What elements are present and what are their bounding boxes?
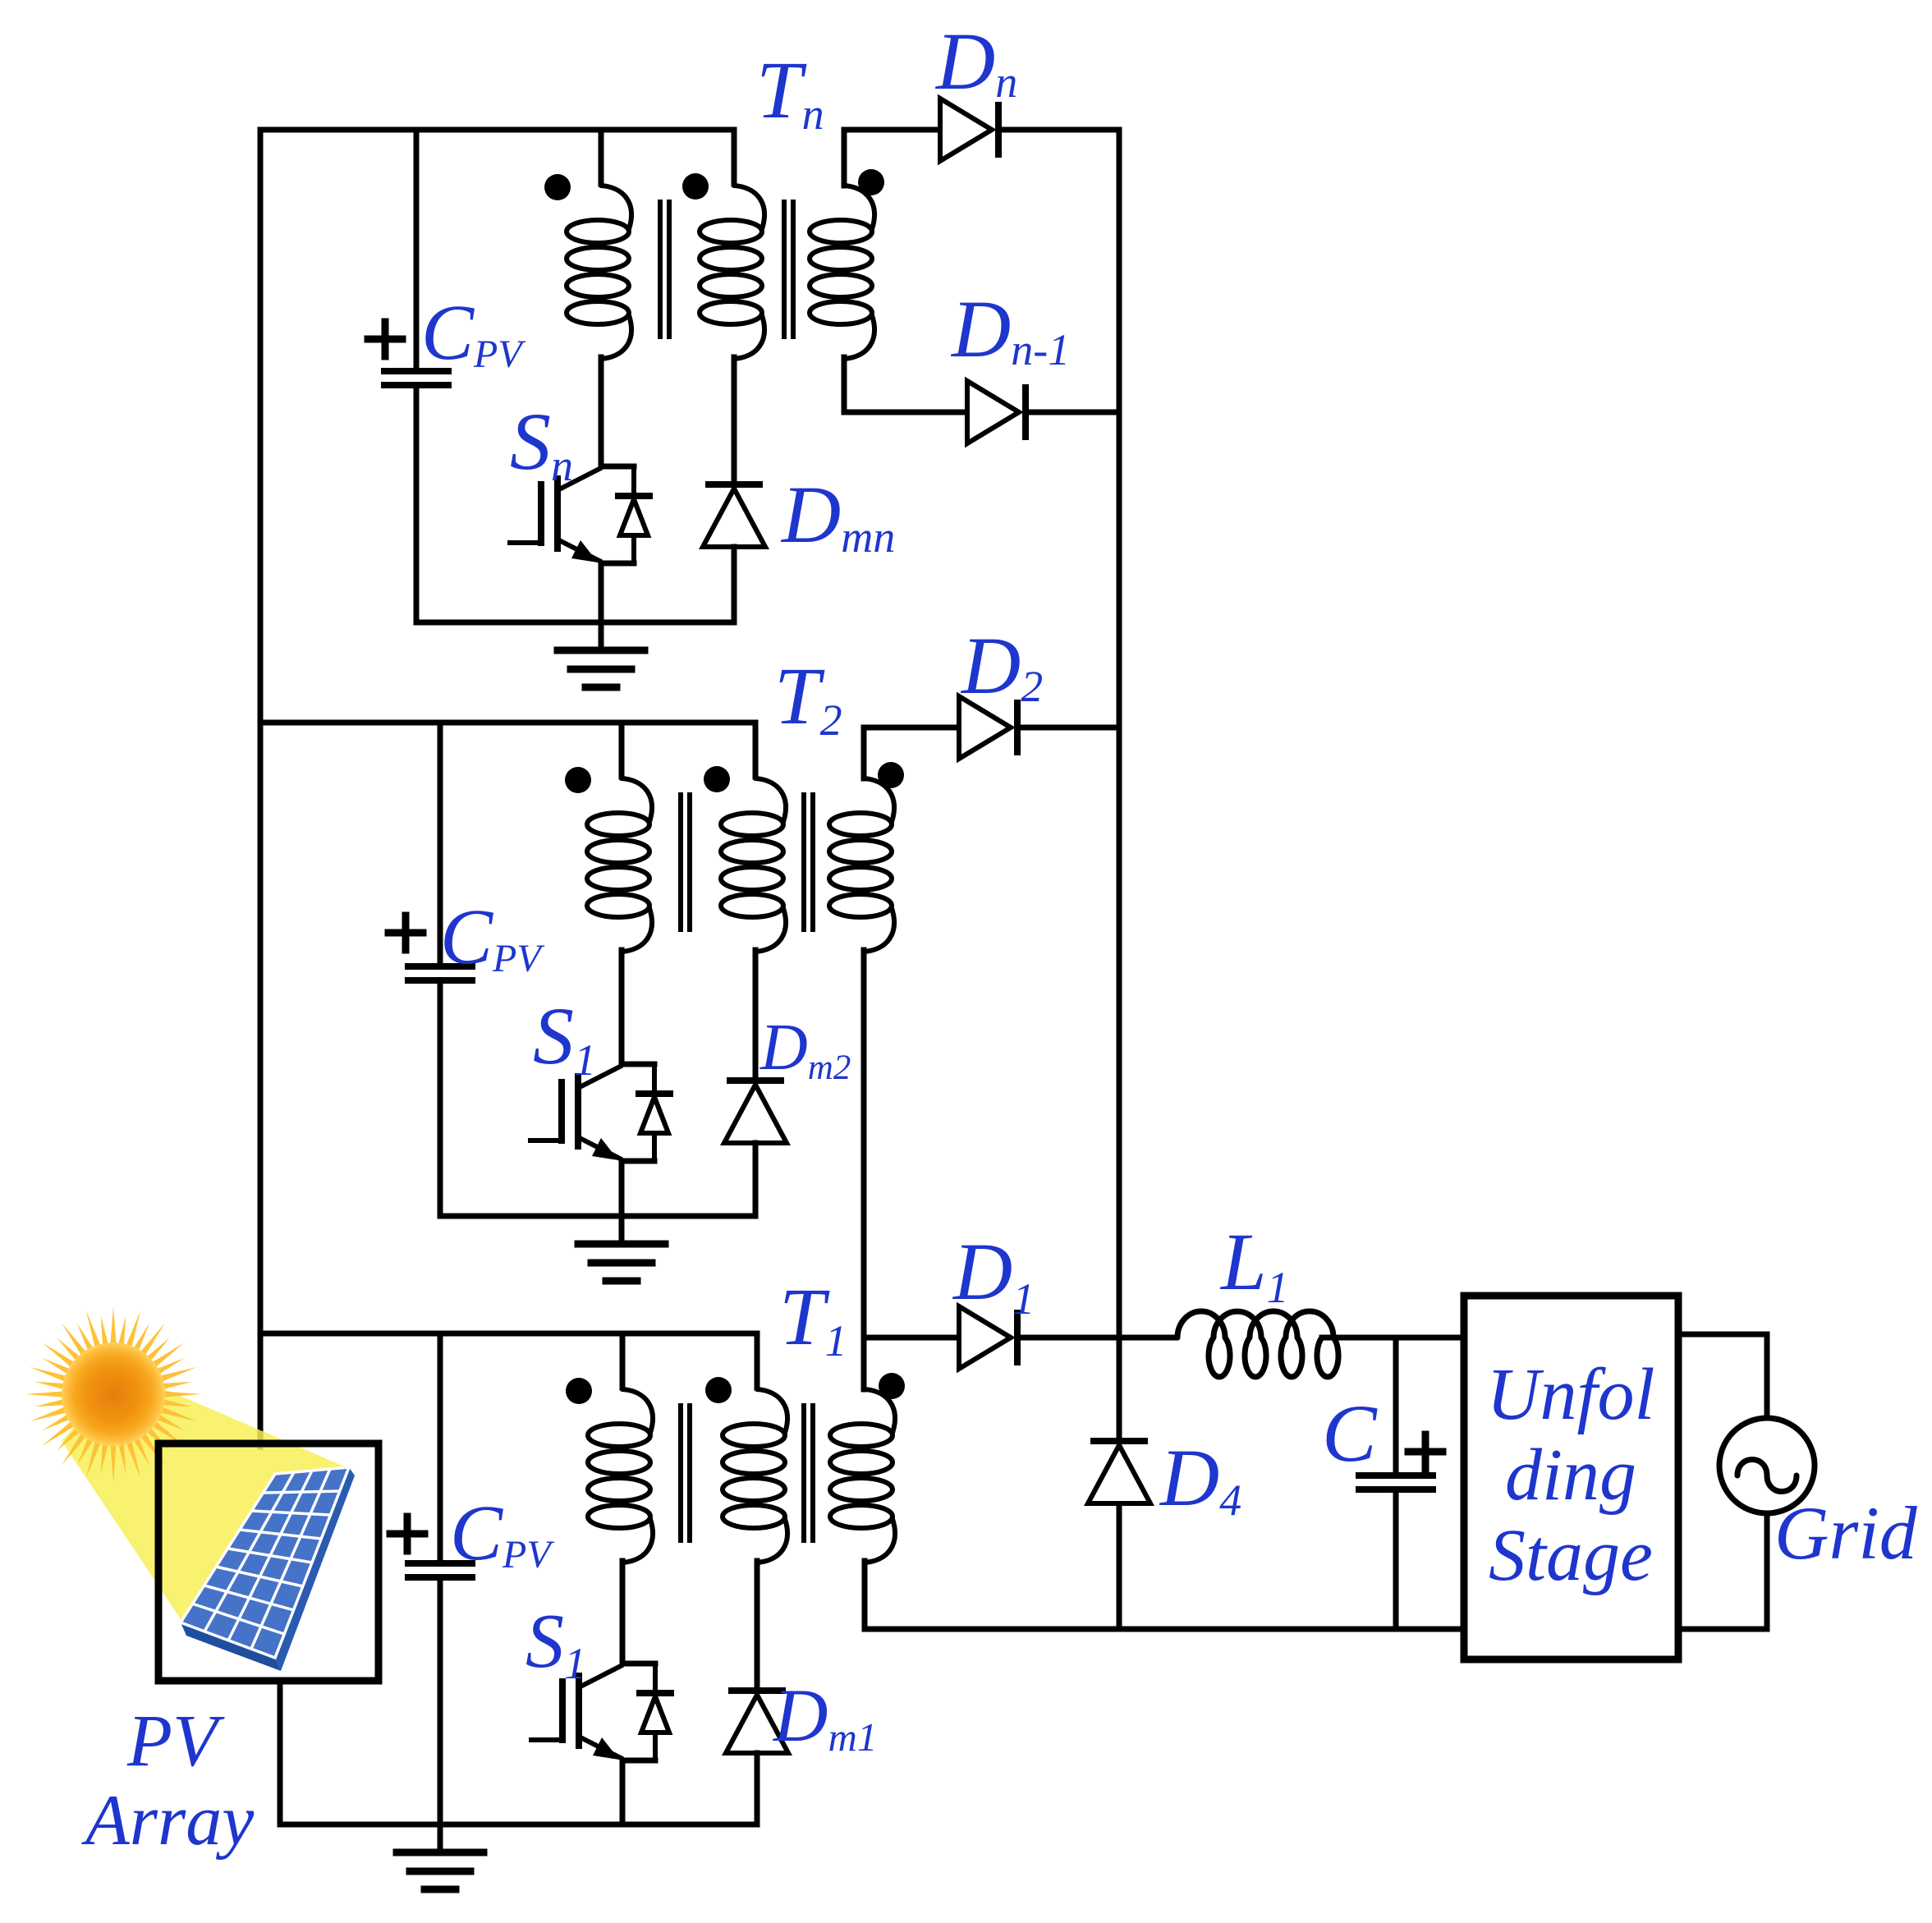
ground (stage 1) xyxy=(438,1824,443,1852)
wire T1 primary bottom lead xyxy=(620,1561,626,1664)
capacitor C_PV (stage n) xyxy=(384,368,448,374)
wire stage T1 top rail xyxy=(260,1331,757,1337)
wire CPV branch lower (stage n) xyxy=(414,387,420,622)
wire left DC bus xyxy=(258,130,264,1447)
wire Tn secondary top lead xyxy=(842,130,847,186)
transformer T2 secondary winding xyxy=(864,778,894,822)
wire Tn primary top lead xyxy=(599,130,604,184)
wire CPV branch upper (stage 2) xyxy=(438,723,443,965)
wire CPV branch lower (stage 1) xyxy=(438,1579,443,1824)
wire T2 primary top lead xyxy=(619,723,625,777)
wire Dm to rail (stage n) xyxy=(732,547,737,622)
transformer T1 secondary winding xyxy=(865,1389,895,1433)
transformer T1 winding 2 xyxy=(757,1389,787,1433)
svg-text:Array: Array xyxy=(81,1781,255,1861)
transformer T2 winding 2 xyxy=(755,778,786,822)
polarity dot T2 primary xyxy=(565,767,591,793)
diode D1 xyxy=(959,1306,1011,1369)
wire L1 node into box xyxy=(1396,1335,1464,1341)
wire junction to L1 xyxy=(1119,1335,1176,1341)
diode D2 xyxy=(959,696,1011,759)
capacitor C xyxy=(1359,1472,1433,1479)
wire output bottom rail xyxy=(865,1627,1464,1632)
wire stage 2 bottom rail xyxy=(440,1214,755,1219)
polarity dot T2 secondary xyxy=(878,762,904,788)
transformer T1 core 2 xyxy=(801,1406,806,1540)
solar panel graphic xyxy=(181,1622,281,1671)
capacitor C_PV (stage 1) xyxy=(408,1560,472,1567)
wire winding2 to Dm (stage 2) xyxy=(753,950,759,1081)
polarity dot Tn secondary xyxy=(858,169,884,195)
polarity dot T1 winding 2 xyxy=(705,1377,732,1403)
wire D1 anode row xyxy=(865,1335,959,1341)
wire stage 1 bottom rail xyxy=(280,1822,757,1828)
wire emitter to rail (stage 1) xyxy=(620,1760,626,1824)
wire Tn secondary bottom to Dn-1 xyxy=(842,357,847,412)
transistor S stage 2 xyxy=(622,1062,654,1067)
transformer Tn core 2 xyxy=(782,202,787,337)
wire right bus below D4 xyxy=(1117,1503,1122,1629)
svg-text:Grid: Grid xyxy=(1774,1491,1918,1575)
wire D2 anode row xyxy=(864,725,959,731)
wire Dm to rail (stage 2) xyxy=(753,1143,759,1216)
diode Dmn xyxy=(709,481,759,488)
wire winding2 to Dm (stage n) xyxy=(732,357,737,484)
wire Dn anode row xyxy=(844,127,940,133)
diode D4 xyxy=(1094,1438,1145,1444)
svg-text:Unfol: Unfol xyxy=(1486,1354,1654,1435)
wire box to grid top xyxy=(1678,1332,1767,1338)
polarity dot T1 primary xyxy=(566,1378,592,1404)
PV array box xyxy=(158,1443,379,1681)
transformer T2 core 2 xyxy=(801,795,806,929)
wire D2 cathode to bus xyxy=(1017,725,1119,731)
transformer Tn core 1 xyxy=(658,202,663,337)
wire Dn-1 anode row xyxy=(844,410,967,415)
polarity dot Tn winding 2 xyxy=(682,173,709,200)
transformer T1 core 1 xyxy=(678,1406,683,1540)
wire Tn primary bottom lead xyxy=(599,357,604,466)
transformer T1 primary winding xyxy=(622,1389,653,1433)
transformer Tn winding 2 xyxy=(734,186,764,229)
wire emitter to rail (stage n) xyxy=(599,563,604,622)
wire PV box to stage1 rail xyxy=(278,1681,283,1824)
wire Tn winding2 top lead xyxy=(732,130,737,184)
wire T2 secondary top lead xyxy=(861,727,867,778)
wire emitter to rail (stage 2) xyxy=(619,1161,625,1216)
diode Dn xyxy=(940,99,992,161)
wire T2 primary bottom lead xyxy=(619,950,625,1064)
wire CPV branch upper (stage n) xyxy=(414,130,420,369)
wire stage n bottom rail xyxy=(416,620,734,626)
diode Dn-1 xyxy=(967,381,1019,443)
block Unfolding Stage xyxy=(1464,1296,1678,1659)
svg-text:C: C xyxy=(1322,1388,1378,1479)
wire T2 winding2 top lead xyxy=(753,723,759,777)
sun rays xyxy=(25,1306,201,1482)
ac source Grid circle xyxy=(1719,1418,1815,1513)
wire stage T2 top rail xyxy=(260,720,755,726)
wire winding2 to Dm (stage 1) xyxy=(755,1561,760,1691)
ground (stage 2) xyxy=(619,1216,625,1244)
transistor S stage 1 xyxy=(622,1661,655,1667)
diode Dm2 xyxy=(730,1077,781,1084)
wire D1 cathode to junction xyxy=(1017,1335,1119,1341)
wire grid bottom xyxy=(1764,1513,1770,1629)
wire T1 primary top lead xyxy=(620,1333,626,1388)
svg-text:ding: ding xyxy=(1505,1434,1636,1516)
capacitor C_PV (stage 2) xyxy=(408,963,472,970)
wire Dn-1 cathode to bus xyxy=(1026,410,1119,415)
sun disc xyxy=(62,1342,165,1446)
diode Dm1 xyxy=(732,1687,782,1694)
polarity dot T2 winding 2 xyxy=(704,766,730,792)
ground (stage n) xyxy=(599,622,604,650)
polarity dot Tn primary xyxy=(544,174,571,200)
polarity dot T1 secondary xyxy=(879,1373,905,1399)
wire C branch lower xyxy=(1393,1491,1399,1629)
ac source sine wave xyxy=(1737,1460,1797,1492)
inductor L1 xyxy=(1177,1311,1338,1377)
wire T1 winding2 top lead xyxy=(755,1333,760,1388)
wire L1 to C node xyxy=(1322,1335,1396,1341)
wire C branch upper xyxy=(1393,1338,1399,1476)
svg-text:Stage: Stage xyxy=(1489,1515,1653,1596)
wire stage Tn top rail xyxy=(260,127,734,133)
transformer T2 primary winding xyxy=(622,778,652,822)
transformer Tn secondary winding xyxy=(844,186,874,229)
transformer T2 core 1 xyxy=(678,795,683,929)
svg-text:PV: PV xyxy=(126,1700,225,1782)
transformer Tn primary winding xyxy=(601,186,631,229)
light beam xyxy=(62,1371,348,1619)
wire T2 secondary bottom / series link to T1 xyxy=(861,950,867,1389)
wire Dm to rail (stage 1) xyxy=(755,1753,760,1824)
wire Dn cathode to bus xyxy=(998,127,1119,133)
wire CPV branch upper (stage 1) xyxy=(438,1333,443,1562)
wire right output bus (diode cathode bus) xyxy=(1117,130,1122,1441)
wire CPV branch lower (stage 2) xyxy=(438,982,443,1216)
wire T1 secondary bottom lead xyxy=(862,1561,868,1629)
transistor S stage n xyxy=(601,464,634,470)
